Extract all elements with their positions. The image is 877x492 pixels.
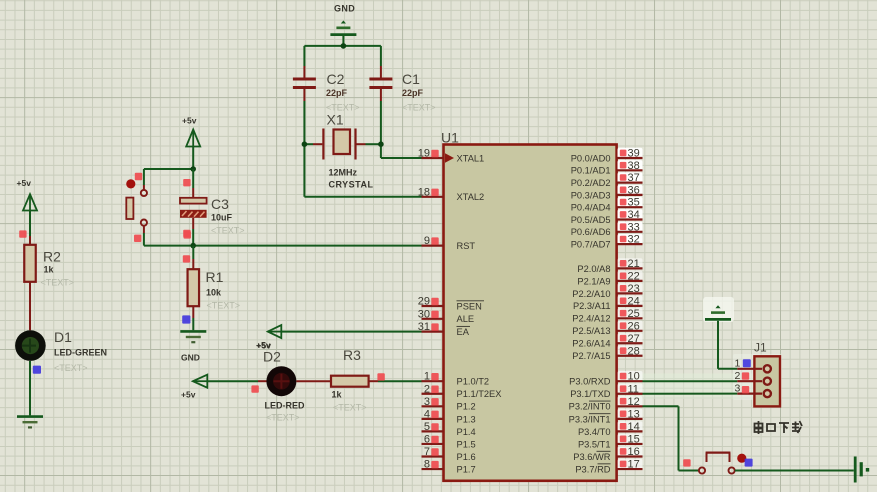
svg-text:PSEN: PSEN bbox=[457, 301, 482, 311]
svg-text:P3.7/RD: P3.7/RD bbox=[575, 464, 610, 474]
svg-text:LED-RED: LED-RED bbox=[265, 401, 305, 411]
svg-text:R3: R3 bbox=[343, 347, 361, 363]
svg-text:10k: 10k bbox=[206, 288, 222, 298]
svg-text:1: 1 bbox=[424, 371, 430, 383]
svg-text:14: 14 bbox=[628, 421, 640, 433]
svg-text:3: 3 bbox=[424, 396, 430, 408]
svg-text:28: 28 bbox=[628, 345, 640, 357]
svg-text:<TEXT>: <TEXT> bbox=[207, 301, 241, 311]
svg-text:P3.0/RXD: P3.0/RXD bbox=[569, 377, 611, 387]
svg-text:P0.0/AD0: P0.0/AD0 bbox=[571, 153, 611, 163]
svg-text:<TEXT>: <TEXT> bbox=[333, 403, 367, 413]
svg-text:22pF: 22pF bbox=[402, 88, 424, 98]
svg-text:P2.4/A12: P2.4/A12 bbox=[572, 314, 610, 324]
svg-text:+5v: +5v bbox=[181, 390, 196, 400]
svg-text:U1: U1 bbox=[441, 130, 459, 146]
svg-text:4: 4 bbox=[424, 408, 430, 420]
svg-text:P2.3/A11: P2.3/A11 bbox=[573, 301, 611, 311]
svg-text:P1.4: P1.4 bbox=[457, 427, 476, 437]
svg-text:2: 2 bbox=[734, 370, 740, 382]
svg-text:30: 30 bbox=[418, 308, 430, 320]
svg-text:P1.2: P1.2 bbox=[457, 402, 476, 412]
svg-text:5: 5 bbox=[424, 421, 430, 433]
svg-text:ALE: ALE bbox=[457, 314, 475, 324]
svg-text:2: 2 bbox=[424, 383, 430, 395]
svg-text:RST: RST bbox=[457, 241, 476, 251]
svg-text:C3: C3 bbox=[211, 196, 229, 212]
svg-text:P3.5/T1: P3.5/T1 bbox=[578, 439, 611, 449]
svg-text:P2.2/A10: P2.2/A10 bbox=[572, 289, 610, 299]
svg-text:29: 29 bbox=[418, 296, 430, 308]
svg-text:P0.1/AD1: P0.1/AD1 bbox=[571, 166, 611, 176]
svg-text:25: 25 bbox=[628, 308, 640, 320]
svg-text:12MHz: 12MHz bbox=[329, 168, 358, 178]
svg-text:1k: 1k bbox=[44, 265, 55, 275]
svg-text:+5v: +5v bbox=[182, 116, 197, 126]
svg-text:J1: J1 bbox=[754, 341, 767, 355]
svg-text:CRYSTAL: CRYSTAL bbox=[329, 180, 374, 190]
svg-text:37: 37 bbox=[628, 172, 640, 184]
svg-text:33: 33 bbox=[628, 221, 640, 233]
svg-text:24: 24 bbox=[628, 295, 640, 307]
svg-text:<TEXT>: <TEXT> bbox=[266, 413, 300, 423]
svg-text:+5v: +5v bbox=[256, 340, 271, 350]
svg-text:<TEXT>: <TEXT> bbox=[54, 363, 88, 373]
svg-text:P3.1/TXD: P3.1/TXD bbox=[570, 389, 611, 399]
svg-text:P1.0/T2: P1.0/T2 bbox=[457, 377, 490, 387]
svg-text:P2.0/A8: P2.0/A8 bbox=[577, 264, 610, 274]
svg-text:R1: R1 bbox=[206, 269, 224, 285]
svg-text:P3.6/WR: P3.6/WR bbox=[573, 452, 610, 462]
svg-text:P3.3/INT1: P3.3/INT1 bbox=[569, 414, 611, 424]
svg-text:17: 17 bbox=[628, 459, 640, 471]
svg-text:P2.1/A9: P2.1/A9 bbox=[577, 276, 610, 286]
svg-text:38: 38 bbox=[628, 160, 640, 172]
svg-text:7: 7 bbox=[424, 446, 430, 458]
svg-text:R2: R2 bbox=[43, 249, 61, 265]
svg-text:6: 6 bbox=[424, 433, 430, 445]
svg-text:8: 8 bbox=[424, 459, 430, 471]
svg-text:XTAL1: XTAL1 bbox=[457, 153, 485, 163]
svg-text:23: 23 bbox=[628, 283, 640, 295]
svg-text:EA: EA bbox=[457, 327, 470, 337]
svg-text:P1.6: P1.6 bbox=[457, 452, 476, 462]
svg-text:10: 10 bbox=[628, 371, 640, 383]
svg-text:<TEXT>: <TEXT> bbox=[211, 226, 245, 236]
svg-text:X1: X1 bbox=[327, 112, 344, 128]
svg-text:11: 11 bbox=[628, 383, 639, 395]
svg-text:15: 15 bbox=[628, 433, 640, 445]
svg-text:22: 22 bbox=[628, 270, 640, 282]
svg-text:<TEXT>: <TEXT> bbox=[402, 103, 436, 113]
svg-text:P2.7/A15: P2.7/A15 bbox=[572, 351, 610, 361]
svg-text:P2.5/A13: P2.5/A13 bbox=[572, 326, 610, 336]
svg-text:C1: C1 bbox=[402, 71, 420, 87]
svg-text:XTAL2: XTAL2 bbox=[457, 192, 485, 202]
svg-text:3: 3 bbox=[734, 382, 740, 394]
svg-text:P0.3/AD3: P0.3/AD3 bbox=[571, 190, 611, 200]
svg-text:1: 1 bbox=[734, 358, 740, 370]
svg-text:GND: GND bbox=[181, 353, 200, 363]
svg-text:P0.4/AD4: P0.4/AD4 bbox=[571, 203, 611, 213]
svg-text:P1.7: P1.7 bbox=[457, 464, 476, 474]
svg-text:P3.4/T0: P3.4/T0 bbox=[578, 427, 611, 437]
svg-text:P0.2/AD2: P0.2/AD2 bbox=[571, 178, 611, 188]
svg-text:LED-GREEN: LED-GREEN bbox=[54, 348, 107, 358]
svg-text:D1: D1 bbox=[54, 329, 72, 345]
svg-text:P0.6/AD6: P0.6/AD6 bbox=[571, 227, 611, 237]
svg-text:12: 12 bbox=[628, 396, 640, 408]
svg-text:27: 27 bbox=[628, 333, 640, 345]
svg-text:13: 13 bbox=[628, 408, 640, 420]
svg-text:36: 36 bbox=[628, 184, 640, 196]
svg-text:22pF: 22pF bbox=[326, 88, 348, 98]
svg-text:32: 32 bbox=[628, 234, 640, 246]
svg-text:P0.7/AD7: P0.7/AD7 bbox=[571, 240, 611, 250]
svg-text:P1.5: P1.5 bbox=[457, 439, 476, 449]
svg-text:10uF: 10uF bbox=[211, 213, 233, 223]
svg-text:P3.2/INT0: P3.2/INT0 bbox=[569, 402, 611, 412]
svg-text:P0.5/AD5: P0.5/AD5 bbox=[571, 215, 611, 225]
svg-text:C2: C2 bbox=[327, 71, 345, 87]
svg-text:P1.1/T2EX: P1.1/T2EX bbox=[457, 389, 502, 399]
svg-text:35: 35 bbox=[628, 197, 640, 209]
svg-text:26: 26 bbox=[628, 320, 640, 332]
svg-text:P2.6/A14: P2.6/A14 bbox=[572, 339, 610, 349]
svg-text:GND: GND bbox=[334, 4, 355, 14]
svg-text:34: 34 bbox=[628, 209, 640, 221]
svg-text:P1.3: P1.3 bbox=[457, 414, 476, 424]
svg-text:16: 16 bbox=[628, 446, 640, 458]
svg-text:+5v: +5v bbox=[17, 178, 32, 188]
svg-text:D2: D2 bbox=[263, 349, 281, 365]
svg-text:39: 39 bbox=[628, 148, 640, 160]
svg-text:1k: 1k bbox=[332, 390, 343, 400]
svg-text:9: 9 bbox=[424, 235, 430, 247]
svg-text:21: 21 bbox=[628, 258, 640, 270]
svg-text:<TEXT>: <TEXT> bbox=[41, 278, 75, 288]
